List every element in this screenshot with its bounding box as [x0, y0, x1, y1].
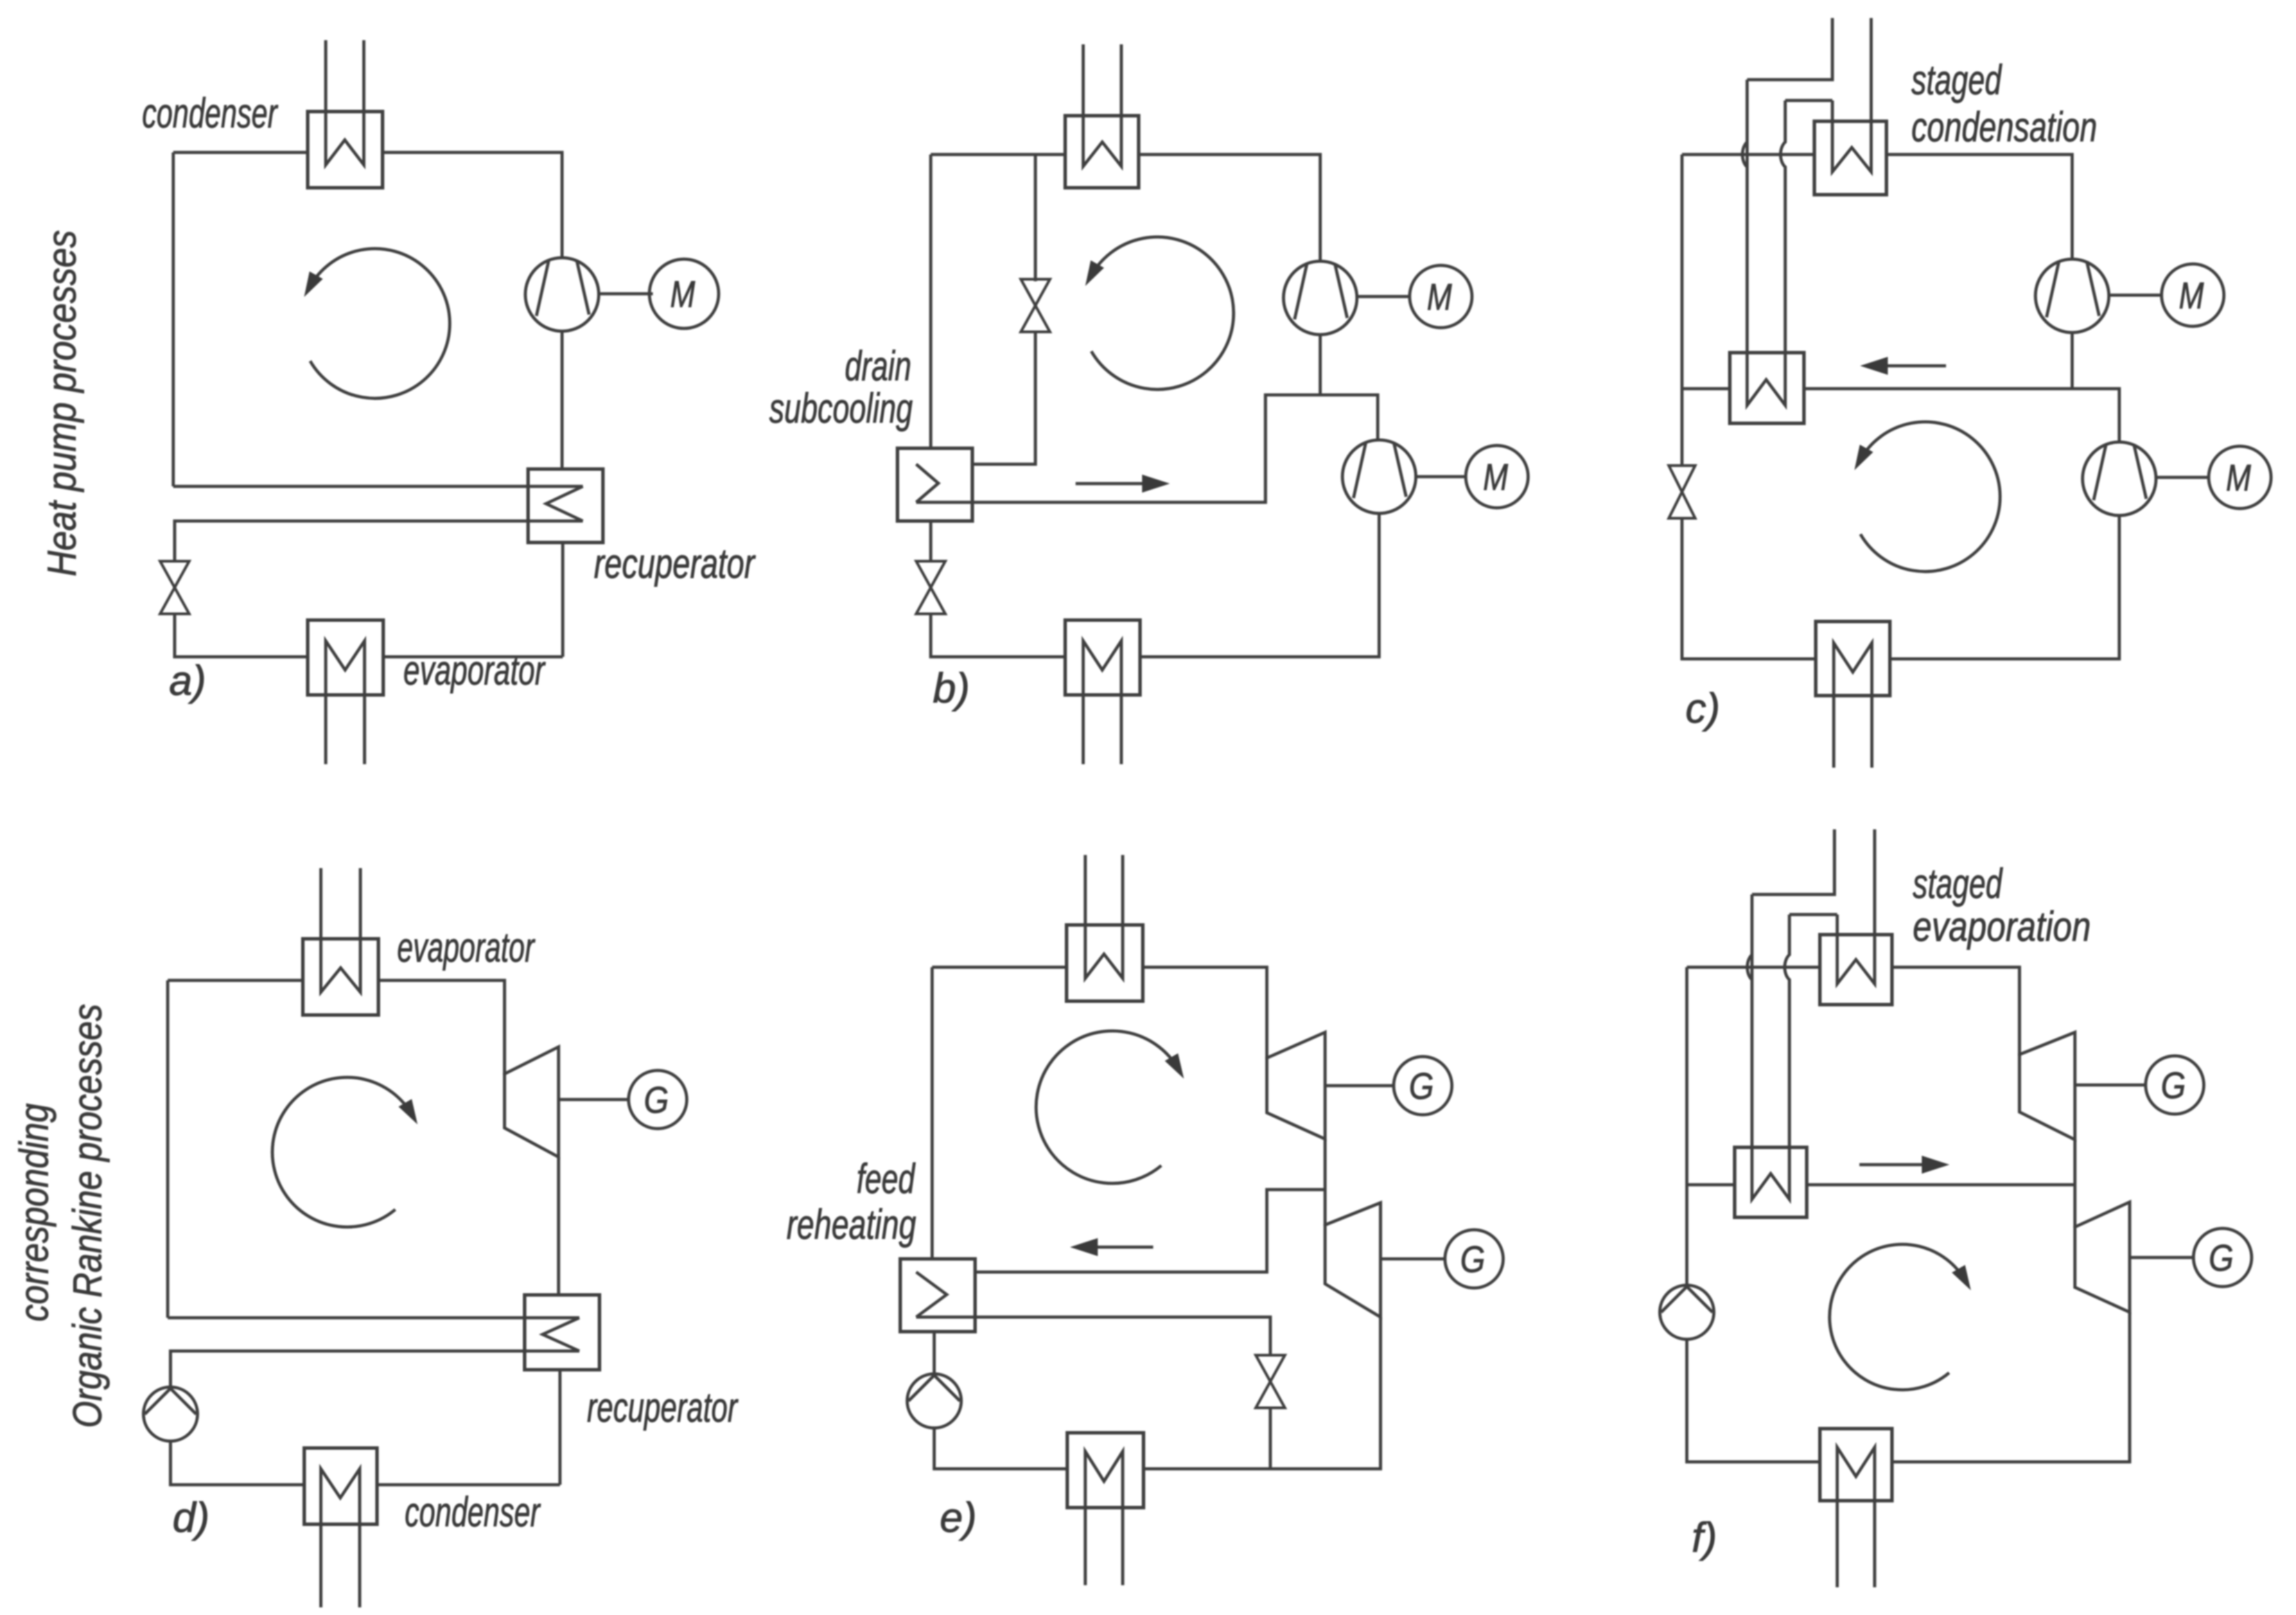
wire: upper loop bottom / recuperator-d hot inlet [168, 1316, 579, 1320]
wire: turbine-f1 exhaust to junction [2074, 1140, 2077, 1228]
evaporator-a tube coil (M) [326, 641, 365, 764]
wire: turbine-e1 shaft link to generator [1325, 1084, 1394, 1088]
evaporator-d tube coil (W) [321, 868, 360, 992]
heat exchanger: recuperator (panel a) box [528, 469, 603, 542]
svg-text:condenser: condenser [405, 1489, 541, 1535]
turbine 2 (panel e) [1325, 1203, 1381, 1317]
svg-text:Organic Rankine processes: Organic Rankine processes [65, 1004, 110, 1428]
wire: drain subcooler outlet to interstage riser [916, 395, 1378, 502]
wire: turbine-d exhaust down to recuperator-d [557, 1157, 561, 1296]
svg-text:G: G [644, 1079, 669, 1121]
wire: extraction branch to feed reheater (panel e) [975, 1190, 1325, 1272]
heat exchanger: condenser 2 / stage-2 (panel c) box [1730, 353, 1804, 423]
wire: left vertical upper (panel c) [1681, 155, 1684, 466]
svg-text:Heat pump processes: Heat pump processes [40, 230, 85, 576]
wire: valve-e down to condensate line [1269, 1408, 1272, 1469]
wire: reheater drain to valve (panel e) [916, 1317, 1270, 1355]
heat exchanger: evaporator (panel d) box [303, 939, 378, 1015]
external water pipe: evaporator-f1 left tube elbow [1789, 913, 1837, 917]
wire: compressor-b1 shaft link to motor [1357, 295, 1410, 299]
wire: compressor-c2 suction from evaporator-c [1890, 515, 2119, 659]
wire: valve V2 to evaporator-b [931, 614, 1065, 657]
svg-text:M: M [670, 274, 695, 315]
wire: left vertical of upper loop (panel d) [166, 980, 170, 1318]
external water pipe: stage-2 HX left tube (hop over wire) [1742, 80, 1747, 353]
flow arrow (panel b, rightwards) [1076, 482, 1149, 486]
svg-text:drain: drain [845, 343, 911, 389]
svg-text:b): b) [933, 665, 970, 712]
external water pipe: top exit elbow (panel f) [1752, 829, 1834, 894]
wire: compressor-c1 outlet down to interstage line [2071, 333, 2074, 389]
wire: stage-2 HX to compressor-c2 [1804, 389, 2119, 442]
wire: condenser-c to compressor-c1 (top right) [1886, 155, 2072, 259]
motor M2 (panel b) [1466, 445, 1528, 508]
external water pipe: condenser-c left tube up and over [1785, 99, 1832, 103]
svg-text:corresponding: corresponding [12, 1104, 57, 1322]
generator G1 (panel e) [1394, 1057, 1452, 1115]
wire: left vertical of upper loop (panel a) [172, 152, 175, 486]
svg-text:M: M [2179, 275, 2204, 317]
wire: condenser-b to compressor-b1 (top right) [1139, 155, 1320, 261]
turbine 1 (panel f) [2019, 1032, 2075, 1140]
heat exchanger: recuperator (panel d) box [525, 1295, 599, 1370]
expansion valve V2 (panel b) [916, 561, 945, 588]
svg-text:feed: feed [857, 1156, 915, 1202]
wire: condenser-a left inlet [173, 151, 308, 155]
wire: pump-e outlet to condenser-e [934, 1427, 1067, 1469]
heat exchanger: evaporator 2 / stage-2 (panel f) box [1735, 1147, 1807, 1217]
svg-text:evaporation: evaporation [1913, 903, 2091, 950]
heat exchanger: evaporator (panel a) box [308, 620, 383, 695]
svg-text:evaporator: evaporator [397, 924, 535, 971]
svg-text:staged: staged [1911, 57, 2002, 103]
heat exchanger: condenser (panel f) box [1820, 1429, 1892, 1501]
condenser-b tube coil (W) [1083, 44, 1121, 166]
generator G2 (panel e) [1445, 1230, 1503, 1288]
circulation direction arrow (panel a, counter-clockwise) [310, 249, 450, 398]
condenser-f tube coil (M) [1837, 1447, 1875, 1587]
wire: evaporator-d left inlet [168, 979, 303, 982]
svg-text:a): a) [169, 658, 206, 704]
wire: evaporator-f1 left line to left vertical [1687, 966, 1820, 969]
feed reheater coil zigzag (panel e) [916, 1272, 947, 1317]
heat exchanger: evaporator (panel e) box [1067, 925, 1143, 1001]
wire: compressor-a shaft link to motor [599, 292, 653, 296]
wire: turbine-e2 shaft link to generator [1381, 1257, 1445, 1261]
svg-text:d): d) [173, 1494, 209, 1541]
svg-text:G: G [1409, 1066, 1434, 1107]
wire: compressor-a outlet down to recuperator-a [561, 331, 564, 470]
compressor 2 (panel b) [1342, 440, 1416, 513]
flow arrow (panel c, leftwards) [1881, 364, 1946, 368]
wire: compressor-c1 shaft link to motor [2109, 294, 2161, 297]
circulation direction arrow (panel e, clockwise) [1036, 1031, 1178, 1183]
wire: compressor-b2 suction from evaporator-b [1140, 513, 1379, 657]
evaporator-b tube coil (M) [1083, 641, 1121, 764]
wire: evaporator-d to turbine-d inlet [378, 980, 505, 1075]
heat exchanger: condenser 1 staged condensation (panel c) box [1814, 121, 1886, 195]
wire: recuperator-d outlet to feed pump (panel d) [170, 1351, 579, 1388]
external water pipe: riser from stage-2 HX (hop over wire) [1780, 100, 1785, 353]
wire: condenser-c left outlet to left vertical [1682, 153, 1814, 157]
svg-text:G: G [1460, 1239, 1485, 1280]
heat exchanger: condenser (panel d) box [304, 1448, 377, 1524]
motor M1 (panel b) [1410, 265, 1472, 328]
svg-text:recuperator: recuperator [594, 540, 756, 587]
wire: compressor-c2 shaft link to motor [2156, 476, 2208, 479]
wire: evaporator-e left inlet [932, 966, 1067, 969]
heat exchanger: condenser (panel b) box [1065, 116, 1139, 188]
svg-text:G: G [2209, 1237, 2234, 1279]
svg-text:reheating: reheating [787, 1201, 916, 1248]
svg-text:recuperator: recuperator [587, 1384, 738, 1431]
wire: turbine-d shaft link to generator [559, 1098, 629, 1102]
recuperator-d coil zigzag [543, 1318, 579, 1351]
heat exchanger: condenser (panel a) box [308, 112, 383, 188]
wire: stage-2 HX to turbine junction (panel f) [1807, 1183, 2075, 1187]
wire: compressor-b2 shaft link to motor [1416, 475, 1465, 479]
wire: bypass branch with valve (panel b) [1034, 155, 1037, 281]
wire: feed reheater to pump (panel e) [933, 1332, 936, 1375]
motor M2 (panel c) [2209, 446, 2271, 509]
turbine 2 (panel f) [2075, 1202, 2130, 1312]
compressor (panel a) [525, 258, 599, 331]
compressor 1 (panel b) [1283, 261, 1357, 335]
wire: evaporator-a to recuperator-a cold side [383, 655, 563, 659]
wire: pump-f outlet to condenser-f [1687, 1338, 1820, 1462]
wire: condenser-d to recuperator-d cold side [377, 1483, 560, 1487]
svg-text:M: M [2226, 457, 2251, 499]
heat exchanger: evaporator (panel c) box [1816, 621, 1890, 696]
evaporator-e tube coil (W) [1085, 855, 1123, 978]
generator G2 (panel f) [2193, 1228, 2252, 1287]
wire: turbine-f2 exhaust to condenser-f [1892, 1312, 2130, 1462]
bypass expansion valve V1 (panel b) [1021, 279, 1050, 306]
wire: recuperator-d cold outlet down [559, 1370, 562, 1485]
feed pump (panel f) [1660, 1285, 1714, 1339]
wire: interstage line through stage-2 HX (panel c) [1682, 387, 1730, 391]
wire: evaporator-e to turbine-e1 inlet [1143, 967, 1267, 1059]
wire: valve-c to evaporator-c [1682, 518, 1816, 659]
external water pipe: downcomer to stage-2 HX (hop over wire) [1785, 915, 1789, 1147]
feed pump (panel d) [143, 1387, 198, 1441]
wire: left vertical upper (panel f) [1685, 967, 1689, 1185]
svg-text:M: M [1427, 276, 1452, 318]
wire: compressor-b1 outlet down to interstage line [1319, 335, 1322, 395]
wire: turbine-f2 shaft link to generator [2130, 1256, 2193, 1260]
wire: upper loop bottom / recuperator-a hot inlet [173, 485, 583, 488]
wire: evaporator-f1 to turbine-f1 inlet [1892, 967, 2019, 1056]
svg-text:c): c) [1685, 685, 1720, 732]
circulation direction arrow (panel f, clockwise) [1830, 1244, 1965, 1390]
expansion valve (panel a) [160, 561, 189, 588]
turbine (panel d) [505, 1047, 559, 1157]
evaporator-c tube coil (M) [1834, 643, 1872, 768]
wire: left vertical (panel b) to drain subcooler [929, 155, 933, 450]
external water pipe: top exit elbow [1747, 18, 1832, 80]
wire: turbine-e2 exhaust to condenser-e [1143, 1317, 1381, 1469]
stage-2 HX tube coil (W) (panel f) [1752, 1147, 1789, 1199]
wire: left vertical to pump (panel f) [1685, 1185, 1689, 1287]
wire: recuperator-a cold outlet down [561, 542, 565, 657]
wire: valve-a to evaporator-a [175, 614, 308, 657]
generator G (panel d) [629, 1070, 687, 1129]
svg-text:condensation: condensation [1911, 104, 2097, 150]
condenser-d tube coil (M) [321, 1469, 360, 1607]
svg-text:condenser: condenser [142, 90, 278, 136]
external water pipe: inlet to condenser-c (right tube) [1832, 18, 1871, 172]
circulation direction arrow (panel b, counter-clockwise) [1091, 237, 1234, 389]
wire: condenser-b left outlet [931, 153, 1065, 157]
wire: bypass valve to drain subcooler hot pipe [972, 330, 1035, 464]
wire: turbine-f1 shaft link to generator [2075, 1084, 2146, 1087]
stage-2 HX tube coil (W) (panel c) [1747, 353, 1785, 405]
feed pump (panel e) [907, 1374, 961, 1428]
external water pipe: stage-2 HX left tube (hop over wire, panel f) [1747, 894, 1752, 1147]
expansion valve (panel c) [1669, 466, 1695, 492]
condenser-e tube coil (M) [1085, 1451, 1123, 1585]
motor M1 (panel c) [2162, 264, 2224, 326]
wire: left vertical to stage-2 HX (panel f) [1687, 1183, 1735, 1187]
drain subcooler coil zigzag (panel b) [916, 464, 938, 502]
svg-text:staged: staged [1913, 861, 2003, 907]
recuperator-a coil zigzag [546, 486, 583, 521]
heat exchanger: feed reheater (panel e) box [900, 1259, 975, 1332]
circulation direction arrow (panel d, clockwise) [272, 1077, 412, 1227]
wire: turbine-e1 exhaust to turbine-e2 inlet [1324, 1139, 1327, 1226]
svg-text:G: G [2161, 1065, 2186, 1106]
condenser-a tube coil (W) [326, 40, 364, 165]
flow arrow (panel e, leftwards) [1091, 1246, 1153, 1249]
compressor 1 (panel c) [2035, 259, 2109, 333]
wire: condenser-a to compressor-a (top right) [383, 152, 562, 258]
svg-text:subcooling: subcooling [769, 385, 913, 432]
wire: left vertical (panel e) to feed reheater [931, 967, 934, 1260]
wire: pump-d outlet to condenser-d [170, 1440, 304, 1485]
external water pipe: inlet to evaporator-f1 (right tube) [1837, 829, 1875, 984]
turbine 1 (panel e) [1267, 1032, 1325, 1139]
expansion valve (panel e) [1256, 1355, 1285, 1382]
svg-text:e): e) [940, 1494, 976, 1541]
compressor 2 (panel c) [2083, 442, 2156, 515]
circulation direction arrow (panel c, counter-clockwise) [1860, 422, 2000, 572]
wire: recuperator-a hot outlet to expansion valve [175, 521, 583, 561]
svg-text:f): f) [1692, 1515, 1717, 1561]
motor M (panel a) [649, 259, 719, 328]
heat exchanger: evaporator (panel b) box [1065, 620, 1140, 695]
wire: drain subcooler to expansion valve V2 (panel b) [929, 521, 933, 561]
flow arrow (panel f, rightwards) [1859, 1163, 1929, 1167]
heat exchanger: condenser (panel e) box [1067, 1433, 1143, 1508]
generator G1 (panel f) [2146, 1056, 2204, 1114]
svg-text:evaporator: evaporator [403, 647, 545, 694]
svg-text:M: M [1483, 457, 1508, 498]
heat exchanger: drain subcooler (panel b) box [897, 448, 972, 521]
heat exchanger: evaporator 1 staged evaporation (panel f) box [1820, 935, 1892, 1005]
